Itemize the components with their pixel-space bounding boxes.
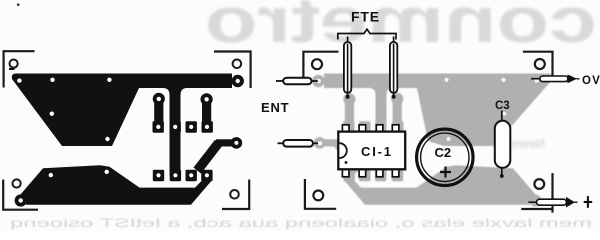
svg-text:ENT: ENT (261, 100, 289, 115)
svg-text:mem lavxle elas o, oiaaloenq a: mem lavxle elas o, oiaaloenq aua acb, a … (10, 216, 592, 230)
svg-text:conmetro: conmetro (205, 0, 597, 56)
svg-text:CI-1: CI-1 (361, 144, 393, 159)
svg-text:FTE: FTE (351, 9, 380, 25)
svg-text:C2: C2 (435, 145, 452, 160)
svg-text:C3: C3 (495, 100, 510, 112)
svg-text:OV: OV (582, 75, 600, 87)
